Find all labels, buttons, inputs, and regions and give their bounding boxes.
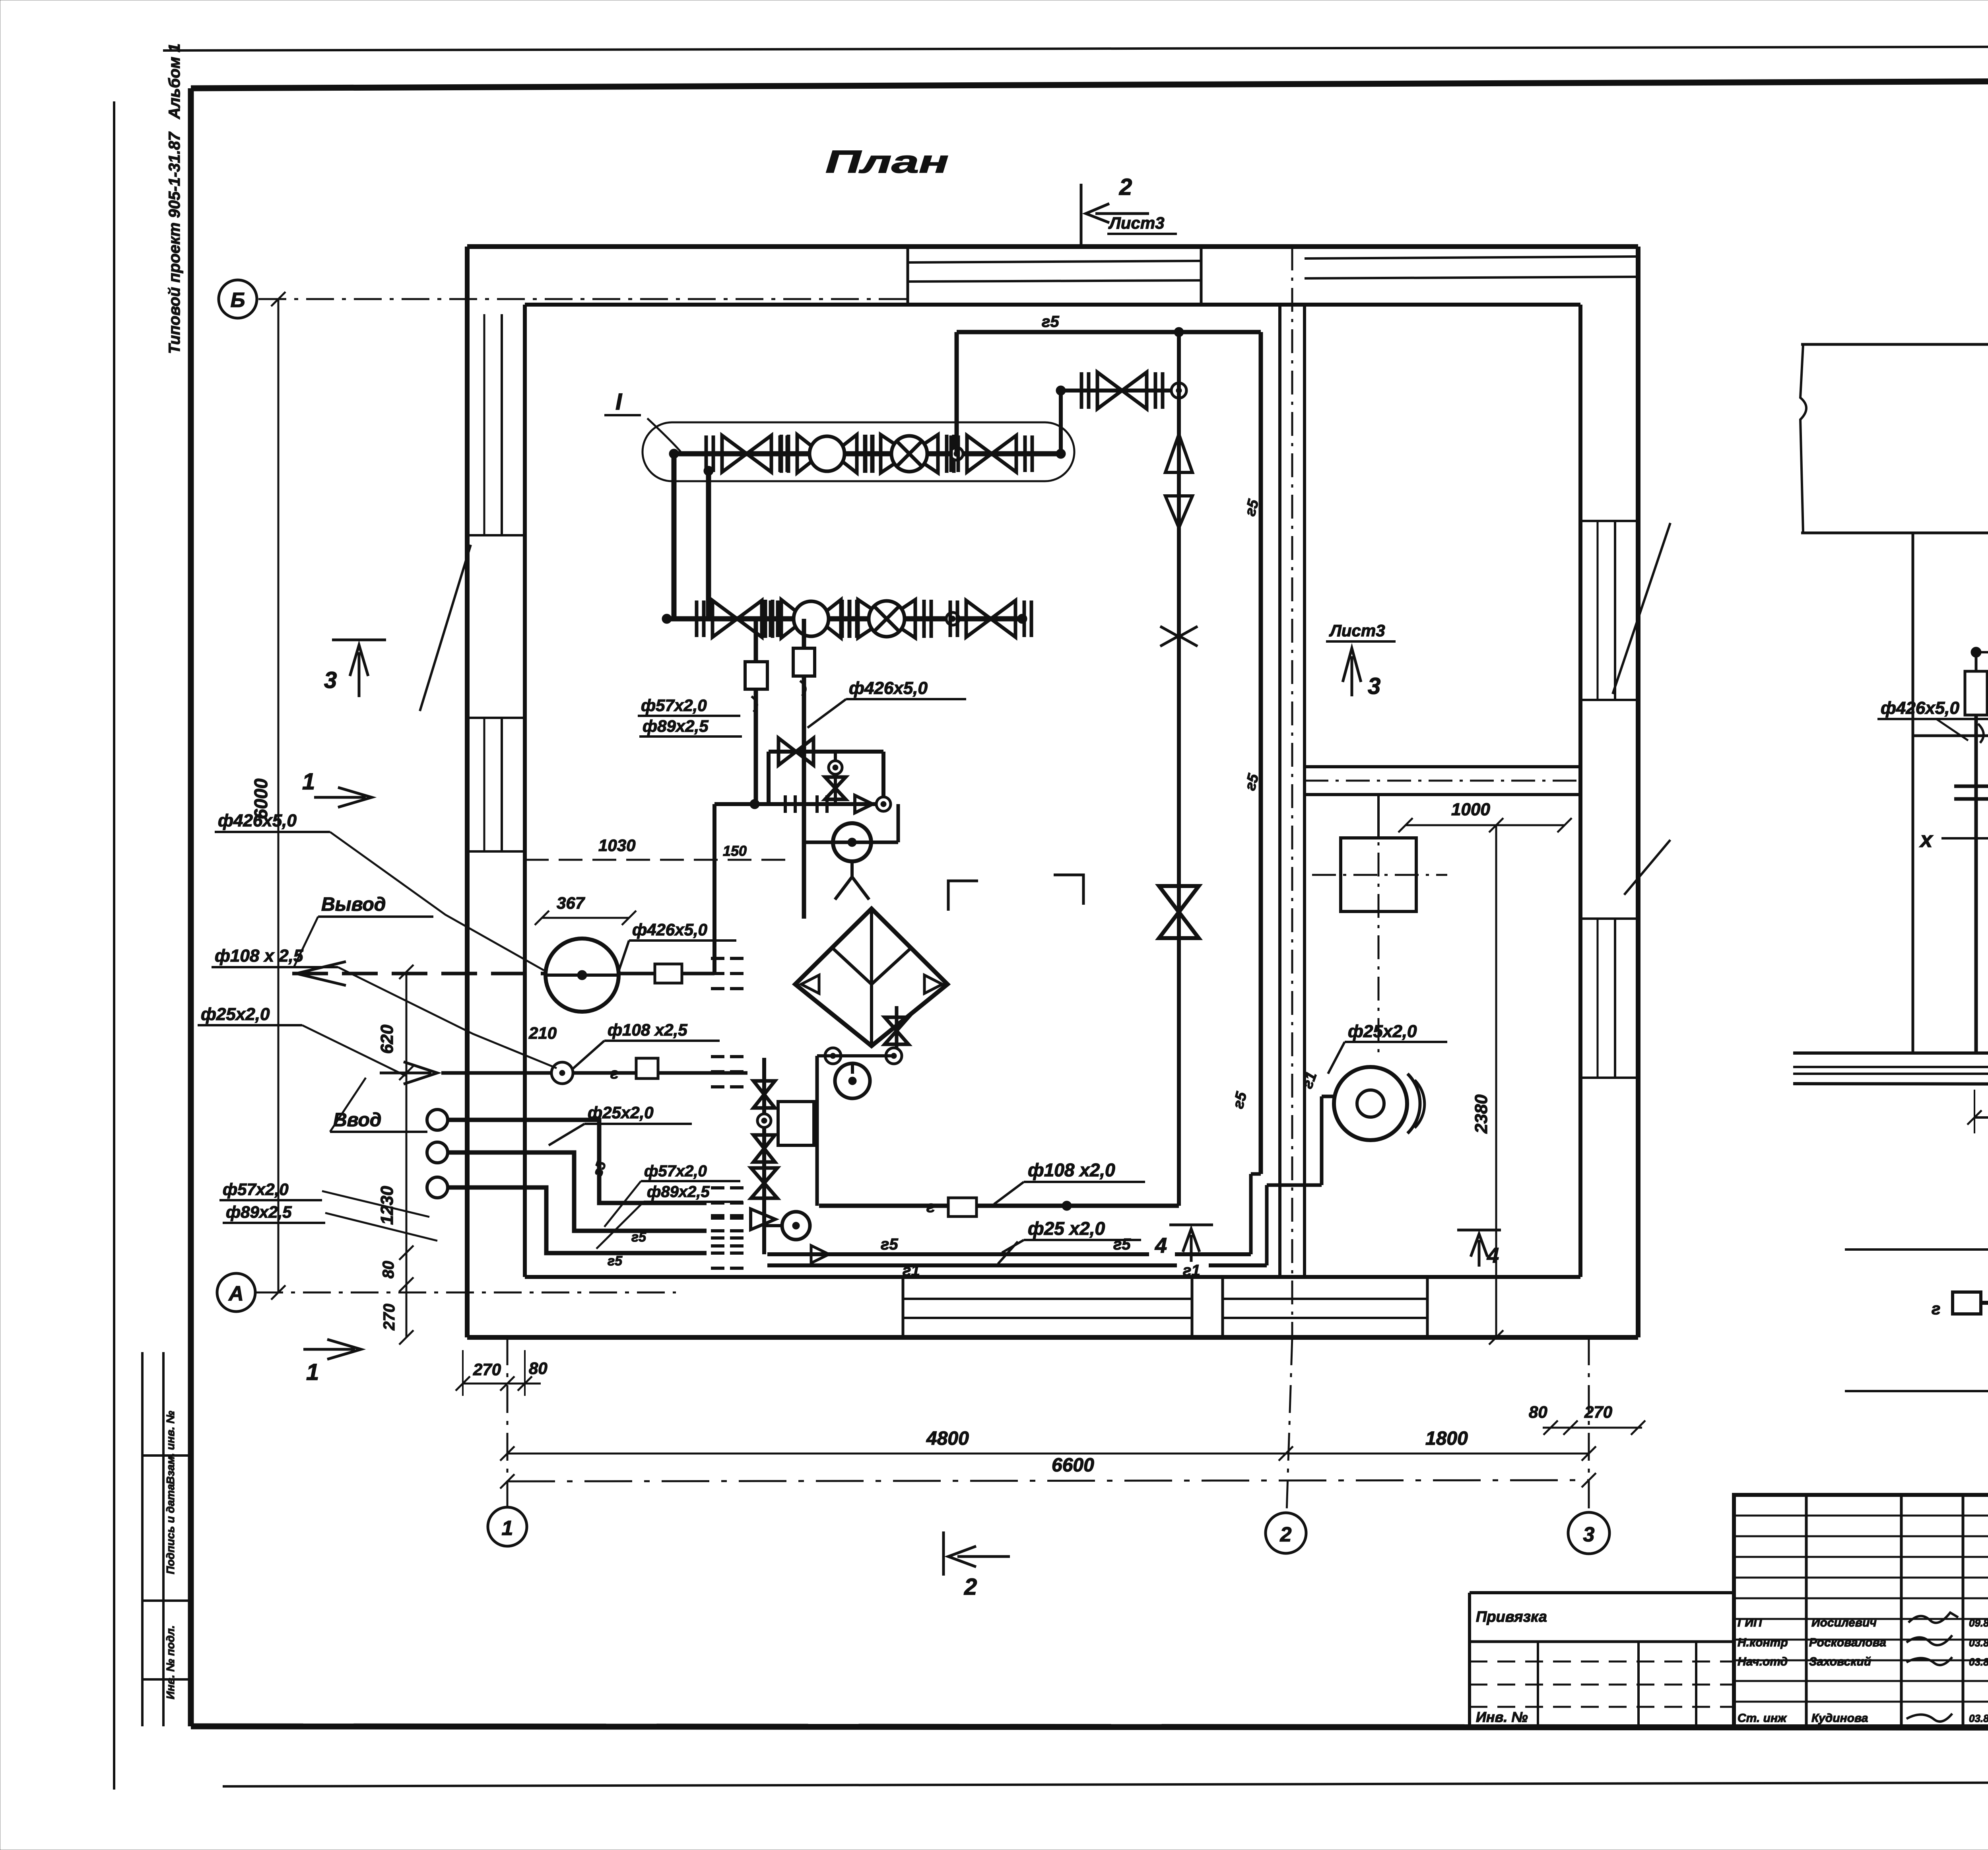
вывод pipe bbox=[292, 972, 546, 976]
relief gag symbol bbox=[1160, 626, 1198, 646]
bottom wall window band right bbox=[1223, 1298, 1427, 1300]
svg-text:План: План bbox=[825, 144, 949, 179]
svg-text:Ввод: Ввод bbox=[333, 1110, 381, 1131]
train1 gate valve 2 bbox=[951, 435, 1032, 472]
svg-text:210: 210 bbox=[528, 1024, 557, 1042]
column flow arrow bbox=[751, 1209, 775, 1230]
svg-text:Росковалова: Росковалова bbox=[1809, 1636, 1886, 1649]
svg-text:2380: 2380 bbox=[1472, 1094, 1491, 1134]
svg-text:Заховский: Заховский bbox=[1809, 1655, 1871, 1668]
svg-text:03.87: 03.87 bbox=[1969, 1637, 1988, 1649]
svg-text:Лист3: Лист3 bbox=[1108, 214, 1165, 232]
вид 1-1 left break squiggle bbox=[1800, 344, 1806, 533]
svg-text:2: 2 bbox=[1280, 1523, 1292, 1546]
svg-text:367: 367 bbox=[557, 894, 585, 912]
svg-text:Б: Б bbox=[231, 289, 245, 312]
column valve 1 bbox=[753, 1081, 775, 1108]
svg-text:г: г bbox=[1932, 1299, 1940, 1318]
train1 ball valve bbox=[781, 435, 873, 473]
г1 riser to heater bbox=[1265, 1185, 1269, 1265]
loop valve top bbox=[779, 738, 813, 765]
svg-text:1: 1 bbox=[502, 1517, 513, 1540]
svg-text:г5: г5 bbox=[631, 1230, 646, 1245]
svg-text:03.87: 03.87 bbox=[1969, 1656, 1988, 1668]
relief branch tap bbox=[1171, 383, 1186, 398]
floor opening corner mark 1 bbox=[948, 881, 978, 911]
svg-text:ф426х5,0: ф426х5,0 bbox=[849, 678, 928, 698]
wall sleeve dash groups bbox=[711, 958, 724, 989]
regulator outlet pipe bbox=[714, 802, 755, 806]
loop tap right bbox=[876, 797, 891, 811]
actuator Y link bbox=[835, 861, 869, 900]
svg-text:Нач.отд: Нач.отд bbox=[1738, 1655, 1788, 1668]
signature rows bbox=[1734, 1515, 1988, 1517]
top wall right window band bbox=[1305, 257, 1638, 258]
gauge left bbox=[825, 1048, 841, 1064]
building outer wall rectangle bbox=[467, 244, 1638, 249]
bottom run г1 bbox=[767, 1263, 1177, 1267]
ввод pipe bbox=[441, 1071, 551, 1075]
привязка table bbox=[1470, 1591, 1734, 1594]
regulator outlet column left bbox=[762, 1058, 766, 1254]
svg-text:80: 80 bbox=[529, 1359, 547, 1378]
svg-text:3: 3 bbox=[1368, 673, 1380, 699]
wall break leader diagonals outside right wall bbox=[1613, 523, 1670, 694]
dimension 2380 vertical bbox=[1495, 825, 1497, 1337]
flow arrow bbox=[811, 1246, 829, 1263]
svg-text:г5: г5 bbox=[1042, 313, 1059, 330]
axis Б bbox=[219, 280, 257, 318]
section mark 1 bottom left bbox=[303, 1339, 361, 1359]
svg-text:6600: 6600 bbox=[1052, 1455, 1094, 1476]
svg-text:ф57х2,0: ф57х2,0 bbox=[641, 696, 707, 715]
svg-text:А: А bbox=[228, 1282, 244, 1305]
train1 plug valve bbox=[865, 435, 954, 473]
svg-text:ф25 х2,0: ф25 х2,0 bbox=[1028, 1218, 1105, 1239]
вид 1-1 second line bbox=[1801, 532, 1988, 534]
svg-text:Подпись и дата: Подпись и дата bbox=[164, 1484, 177, 1574]
riser г5 long vertical bbox=[1259, 332, 1263, 1174]
interior partition wall horizontal right room bbox=[1305, 765, 1580, 768]
instrument boxes vid 1-1 bbox=[1965, 671, 1987, 715]
heater bbox=[1334, 1067, 1407, 1140]
svg-text:150: 150 bbox=[723, 843, 747, 859]
outlet main down to blowdown header bbox=[815, 1056, 819, 1206]
loop bottom fittings bbox=[784, 795, 787, 813]
axis 1 bbox=[488, 1507, 527, 1546]
dimension 1000 right room bbox=[1406, 824, 1565, 826]
svg-text:09.87: 09.87 bbox=[1969, 1617, 1988, 1629]
section mark 2 bottom bbox=[942, 1531, 945, 1576]
filter outlet valve right bbox=[895, 1006, 899, 1056]
svg-text:Иосилевич: Иосилевич bbox=[1811, 1616, 1877, 1629]
wire train1 to train2 drops bbox=[672, 454, 677, 619]
inlet riser 1 bbox=[427, 1110, 448, 1130]
capsule detail I outline bbox=[643, 422, 1074, 481]
svg-text:620: 620 bbox=[377, 1024, 397, 1054]
svg-text:Взам. инв. №: Взам. инв. № bbox=[164, 1411, 177, 1485]
regulator inlet drops from train2 bbox=[754, 619, 758, 804]
svg-text:ф89х2,5: ф89х2,5 bbox=[226, 1203, 292, 1221]
building inner wall rectangle bbox=[525, 303, 1580, 307]
relief check valve up bbox=[1165, 434, 1192, 472]
loop gauge branch bbox=[834, 752, 837, 804]
svg-text:03.87: 03.87 bbox=[1969, 1712, 1988, 1724]
svg-text:г5: г5 bbox=[1113, 1236, 1131, 1253]
train2 gate valve 2 bbox=[950, 600, 1031, 637]
axis А bbox=[217, 1273, 255, 1312]
svg-text:ф89х2,5: ф89х2,5 bbox=[643, 717, 709, 735]
filter diamond bbox=[795, 909, 947, 1046]
svg-text:Ст. инж: Ст. инж bbox=[1738, 1712, 1787, 1725]
svg-text:3: 3 bbox=[1583, 1523, 1595, 1546]
train2 plug valve bbox=[842, 600, 931, 638]
right wall window bands bbox=[1597, 521, 1599, 700]
svg-text:ф57х2,0: ф57х2,0 bbox=[644, 1162, 707, 1180]
inlet step pipe 1 bbox=[448, 1120, 707, 1203]
svg-text:ГИП: ГИП bbox=[1738, 1616, 1763, 1629]
interior partition wall axis 2 bbox=[1278, 305, 1281, 1277]
relief check valve down bbox=[1165, 496, 1192, 528]
axis 2 bbox=[1266, 1513, 1306, 1553]
svg-text:Лист3: Лист3 bbox=[1329, 621, 1385, 640]
relief branch gate valve bbox=[1081, 372, 1163, 409]
inlet step pipe 2 bbox=[448, 1152, 707, 1231]
svg-text:Типовой проект 905-1-31.87 А: Типовой проект 905-1-31.87 Альбом 1 bbox=[166, 43, 183, 354]
svg-text:1: 1 bbox=[306, 1359, 319, 1385]
svg-text:г: г bbox=[610, 1065, 618, 1082]
svg-text:x: x bbox=[1919, 827, 1934, 852]
svg-text:1: 1 bbox=[302, 769, 315, 795]
svg-text:Кудинова: Кудинова bbox=[1811, 1712, 1868, 1725]
sheet frame inner thick border bbox=[191, 80, 1988, 88]
insulating flanges bbox=[1954, 785, 1988, 788]
sheet frame outer thin border bbox=[163, 46, 1988, 51]
floor opening corner mark 2 bbox=[1054, 875, 1083, 905]
dimension line vid bottom bbox=[1974, 1116, 1988, 1119]
svg-text:Привязка: Привязка bbox=[1476, 1609, 1547, 1625]
вид 1-1 floor slab lines bbox=[1793, 1051, 1988, 1055]
section mark 4 right bbox=[1457, 1229, 1501, 1232]
svg-text:ф108 х2,0: ф108 х2,0 bbox=[1028, 1160, 1115, 1180]
actuator return line bbox=[804, 841, 898, 844]
svg-text:4: 4 bbox=[1155, 1234, 1167, 1257]
svg-text:80: 80 bbox=[1529, 1403, 1547, 1421]
branch with gate valve to relief bbox=[1061, 389, 1179, 393]
left margin column lines bbox=[141, 1352, 144, 1726]
detail box broken outline bbox=[1845, 1241, 1988, 1391]
svg-text:ф25х2,0: ф25х2,0 bbox=[588, 1103, 654, 1122]
valve train1 gate valve bbox=[706, 435, 787, 472]
bottom wall window band left bbox=[903, 1298, 1192, 1300]
title block signature columns bbox=[1805, 1495, 1808, 1726]
dimension 1030 150 bbox=[525, 859, 791, 861]
instrument box on drop 1 bbox=[745, 662, 767, 689]
blowdown header pipe bbox=[819, 1204, 1179, 1208]
pressure regulator actuator circle bbox=[833, 823, 871, 861]
svg-text:г1: г1 bbox=[1183, 1262, 1200, 1279]
instrument box on drop 2 bbox=[793, 648, 815, 676]
svg-text:2: 2 bbox=[1119, 174, 1132, 200]
svg-text:ф426х5,0: ф426х5,0 bbox=[632, 920, 707, 939]
svg-text:2: 2 bbox=[964, 1574, 977, 1600]
dimension column 620 1230 80 270 bbox=[406, 972, 408, 1337]
inlet meter bbox=[551, 1062, 573, 1084]
svg-text:3: 3 bbox=[324, 667, 337, 693]
svg-text:4800: 4800 bbox=[926, 1428, 969, 1449]
relief double-cone valve bbox=[1159, 886, 1199, 938]
gas meter big circle bbox=[546, 939, 619, 1012]
вывод instrument box bbox=[619, 972, 655, 976]
column valve 2 bbox=[753, 1135, 775, 1162]
train1 tap bbox=[950, 447, 963, 460]
section mark 3 top left bbox=[332, 639, 386, 641]
valve train 1 pipe bbox=[674, 451, 1061, 457]
svg-text:ф426х5,0: ф426х5,0 bbox=[218, 811, 297, 830]
train2 gate valve bbox=[697, 600, 778, 637]
column gauge bbox=[757, 1114, 771, 1127]
train2 ball valve bbox=[765, 600, 857, 638]
svg-text:1030: 1030 bbox=[598, 836, 635, 855]
svg-text:Вывод: Вывод bbox=[321, 894, 386, 915]
bottom run г5 bbox=[767, 1252, 1149, 1256]
valve train 2 pipe bbox=[667, 616, 1022, 622]
svg-text:80: 80 bbox=[380, 1261, 397, 1279]
svg-text:г5: г5 bbox=[881, 1236, 898, 1253]
svg-text:Инв. №: Инв. № bbox=[1476, 1709, 1528, 1725]
svg-text:1000: 1000 bbox=[1451, 800, 1490, 819]
svg-text:270: 270 bbox=[473, 1360, 501, 1379]
svg-text:270: 270 bbox=[381, 1304, 398, 1331]
svg-text:I: I bbox=[615, 389, 623, 415]
loop small valve bbox=[825, 777, 846, 799]
dimension 80 270 bottom right bbox=[1543, 1427, 1642, 1429]
svg-text:1800: 1800 bbox=[1425, 1428, 1468, 1449]
inlet riser 2 bbox=[427, 1142, 448, 1163]
svg-text:ф25х2,0: ф25х2,0 bbox=[1348, 1022, 1417, 1041]
вид 1-1 left wall bbox=[1912, 533, 1914, 1053]
train2 tap bbox=[946, 612, 959, 625]
flue square with cross bbox=[1341, 838, 1416, 911]
svg-text:ф57х2,0: ф57х2,0 bbox=[223, 1180, 289, 1199]
relief pipe vertical bbox=[1177, 332, 1181, 1206]
section mark 2 top bbox=[1080, 184, 1083, 247]
вид 1-1 interior floor line bbox=[1913, 735, 1988, 737]
gauge right bbox=[886, 1048, 902, 1064]
svg-text:ф25х2,0: ф25х2,0 bbox=[201, 1005, 270, 1024]
left wall window bands bbox=[483, 314, 485, 535]
svg-text:ф108 х 2,5: ф108 х 2,5 bbox=[215, 946, 303, 966]
dimension 270 80 bottom left bbox=[463, 1383, 541, 1385]
dimension 6000 vertical between axes bbox=[278, 299, 280, 1292]
column valve 3 bbox=[751, 1168, 777, 1198]
X - X section line bbox=[1941, 837, 1988, 839]
svg-text:Н.контр: Н.контр bbox=[1738, 1636, 1788, 1649]
square instrument below filter bbox=[778, 1102, 814, 1145]
loop gauge bbox=[829, 761, 842, 774]
вид 1-1 ceiling line bbox=[1801, 343, 1988, 346]
top wall window band bbox=[908, 261, 1201, 262]
svg-text:ф426х5,0: ф426х5,0 bbox=[1881, 698, 1960, 718]
section mark 4 left bbox=[1169, 1224, 1213, 1226]
dimension 367 bbox=[542, 917, 629, 919]
г5 line from train1 up and right bbox=[955, 332, 959, 454]
svg-text:Инв. № подл.: Инв. № подл. bbox=[164, 1625, 177, 1699]
svg-text:г: г bbox=[926, 1198, 935, 1216]
dimension 6600 bbox=[507, 1480, 1589, 1481]
vid pipes down bbox=[1974, 715, 1978, 1053]
svg-text:г5: г5 bbox=[608, 1253, 623, 1269]
diagonal break leader at left wall bbox=[420, 545, 471, 711]
flow meter circle bbox=[835, 1063, 870, 1098]
signatures squiggles bbox=[1908, 1613, 1958, 1623]
svg-text:ф108 х2,5: ф108 х2,5 bbox=[608, 1020, 687, 1039]
filter outlet valve bbox=[885, 1017, 909, 1044]
svg-text:ф89х2,5: ф89х2,5 bbox=[647, 1183, 710, 1201]
inlet riser 3 bbox=[427, 1177, 448, 1198]
svg-text:4: 4 bbox=[1487, 1244, 1499, 1267]
regulator impulse loop bbox=[769, 750, 883, 754]
axis 3 bbox=[1568, 1512, 1609, 1554]
svg-text:270: 270 bbox=[1584, 1403, 1612, 1421]
inlet step pipe 3 bbox=[448, 1187, 707, 1253]
dimension 4800 and 1800 bbox=[507, 1453, 1589, 1455]
svg-text:г1: г1 bbox=[903, 1262, 920, 1279]
column pump bbox=[782, 1212, 810, 1240]
dots line 2.400 bbox=[1976, 652, 1988, 654]
title block outer bbox=[1734, 1495, 1988, 1726]
